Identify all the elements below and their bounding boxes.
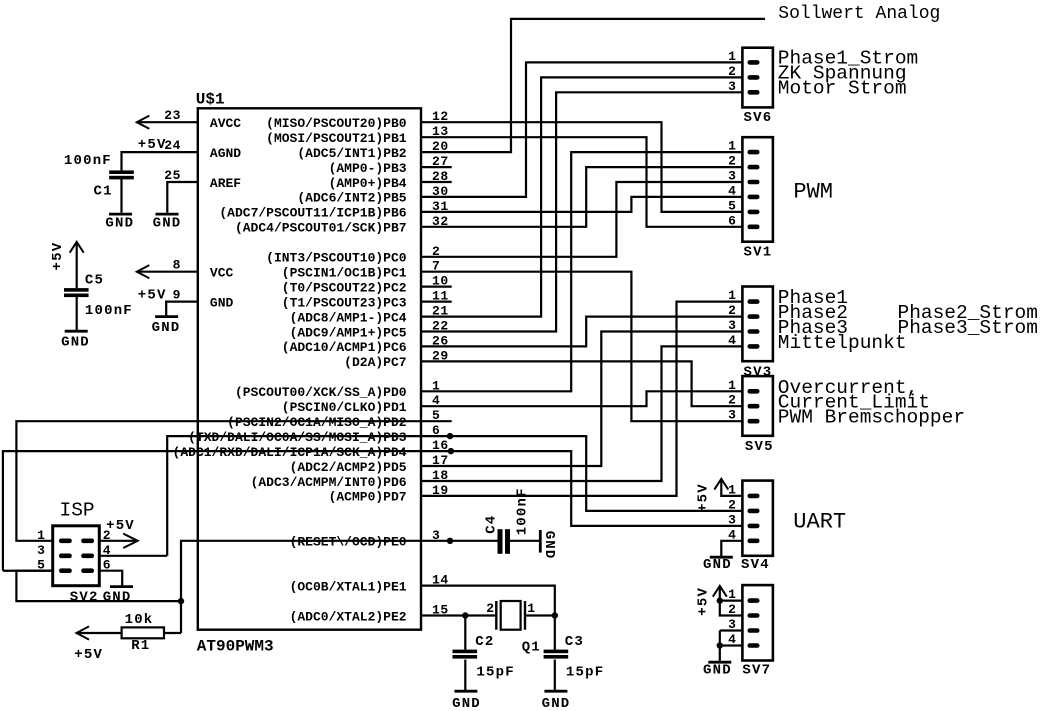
wire net XTAL1: PE1 pin14 to crystal pin1 node xyxy=(421,586,555,616)
svg-text:(AMP0-)PB3: (AMP0-)PB3 xyxy=(329,161,407,176)
junction dot PD4 stub xyxy=(448,448,454,454)
svg-text:VCC: VCC xyxy=(210,266,234,281)
wire net PHASE1_STROM: PB5 pin30 to SV6 pin1 xyxy=(421,62,742,197)
wire net PSCOUT20: PB0 pin12 to SV1 pin5 xyxy=(421,122,742,212)
wire net R1 right to RESET xyxy=(164,632,181,634)
svg-text:24: 24 xyxy=(164,138,181,153)
capacitor C5 label xyxy=(85,273,104,289)
node label Phase3 xyxy=(778,317,848,339)
wire net PHASE1: PD7 pin19 to SV3 pin1 xyxy=(421,302,742,496)
wire net +5V VCC: pin8 to +5V arrow xyxy=(137,271,198,273)
svg-text:+5V: +5V xyxy=(138,137,167,153)
svg-text:3: 3 xyxy=(728,512,736,527)
power +5V arrow at SV7 pins1-2 xyxy=(695,586,726,616)
svg-text:GND: GND xyxy=(103,589,132,605)
capacitor C1 plates xyxy=(109,170,134,179)
svg-text:15pF: 15pF xyxy=(566,664,604,680)
power +5V arrow at VCC pin8 xyxy=(137,265,167,303)
wire net PSCOUT21: PB1 pin13 to SV1 pin6 xyxy=(421,137,742,227)
crystal Q1 label xyxy=(522,640,541,656)
svg-text:Phase3_Strom: Phase3_Strom xyxy=(898,317,1038,339)
svg-text:(INT3/PSCOUT10)PC0: (INT3/PSCOUT10)PC0 xyxy=(266,251,407,266)
svg-text:2: 2 xyxy=(728,497,736,512)
svg-text:SV3: SV3 xyxy=(744,364,773,380)
svg-text:PWM Bremschopper: PWM Bremschopper xyxy=(778,407,965,429)
node label Current_Limit xyxy=(778,392,930,414)
svg-text:(OC0B/XTAL1)PE1: (OC0B/XTAL1)PE1 xyxy=(290,579,407,594)
wire net CURRENT_LIMIT: PC7 pin29 to SV5 pin2 xyxy=(421,361,742,406)
wire net PWM_BREMSCHOPPER: PC1 pin7 to SV5 pin3 xyxy=(421,272,742,422)
node label Mittelpunkt xyxy=(778,332,907,354)
svg-text:3: 3 xyxy=(728,617,736,632)
junction dot SV7 pin1 +5V xyxy=(717,597,723,603)
connector SV1 xyxy=(742,137,773,242)
svg-text:(ADC2/ACMP2)PD5: (ADC2/ACMP2)PD5 xyxy=(290,460,407,475)
wire net GND9: pin9 to GND xyxy=(166,302,198,316)
svg-text:+5V: +5V xyxy=(695,587,711,616)
SV7 pin numbers xyxy=(728,587,736,647)
svg-text:1: 1 xyxy=(37,528,45,543)
node label Sollwert Analog xyxy=(778,4,940,24)
capacitor C4 plates (horizontal orientation) xyxy=(498,529,511,554)
svg-text:C1: C1 xyxy=(94,183,113,199)
svg-text:(PSCIN0/CLKO)PD1: (PSCIN0/CLKO)PD1 xyxy=(282,400,407,415)
SV7 label xyxy=(742,663,771,679)
svg-text:2: 2 xyxy=(728,393,736,408)
node label Motor Strom xyxy=(778,78,907,100)
junction dot XTAL1 / C3 xyxy=(552,612,558,618)
junction dot ISP pin5 / R1 / RESET xyxy=(178,598,184,604)
wire net XTAL2 branch: C2 stem xyxy=(464,616,466,650)
SV2 right pin numbers 2 4 6 xyxy=(103,528,111,573)
svg-text:C3: C3 xyxy=(565,634,584,650)
SV3 pin numbers xyxy=(728,288,736,348)
svg-text:(ADC6/INT2)PB5: (ADC6/INT2)PB5 xyxy=(297,191,406,206)
svg-text:SV7: SV7 xyxy=(742,663,771,679)
wire net R1 left +5V xyxy=(77,632,122,634)
wire net C2 lower stem xyxy=(464,660,466,691)
ground GND under C1 xyxy=(105,214,134,231)
connector SV4 xyxy=(742,481,773,556)
wire net PSCOUT00: PD0 pin1 to SV1 pin1 xyxy=(421,152,742,391)
connector SV5 xyxy=(742,376,773,436)
svg-text:4: 4 xyxy=(728,333,736,348)
capacitor C2 value 15pF xyxy=(476,664,514,680)
SV1 label xyxy=(744,245,773,261)
node label PWM Bremschopper xyxy=(778,407,965,429)
node label Phase2 xyxy=(778,302,848,324)
SV4 pin numbers xyxy=(728,482,736,542)
SV5 label xyxy=(745,439,774,455)
power +5V arrow left of R1 xyxy=(74,626,103,663)
wire net SV7 GND pins3-4 xyxy=(720,631,743,662)
svg-text:GND: GND xyxy=(703,557,732,573)
SV4 label xyxy=(741,557,770,573)
svg-text:(MOSI/PSCOUT21)PB1: (MOSI/PSCOUT21)PB1 xyxy=(266,131,407,146)
svg-text:GND: GND xyxy=(153,216,182,232)
svg-text:(ADC10/ACMP1)PC6: (ADC10/ACMP1)PC6 xyxy=(282,340,407,355)
svg-text:1: 1 xyxy=(728,288,736,303)
resistor R1 label xyxy=(131,638,150,654)
node label Phase1_Strom xyxy=(778,48,918,70)
capacitor C1 value 100nF xyxy=(64,153,112,169)
svg-text:1: 1 xyxy=(527,601,535,616)
crystal Q1 pin number 1 xyxy=(527,601,535,616)
svg-text:GND: GND xyxy=(210,295,234,310)
node label Overcurrent, xyxy=(778,377,918,399)
capacitor C3 label xyxy=(565,634,584,650)
svg-text:C2: C2 xyxy=(475,634,494,650)
wire net SV4 +5V arrow to pin1 xyxy=(721,479,742,496)
svg-text:(ADC8/AMP1-)PC4: (ADC8/AMP1-)PC4 xyxy=(290,310,407,325)
ground GND at SV4 pin4 xyxy=(703,557,733,573)
svg-text:GND: GND xyxy=(703,663,732,679)
SV2 left pin numbers 1 3 5 xyxy=(37,528,45,573)
svg-text:(PSCIN2/OC1A/MISO_A)PD2: (PSCIN2/OC1A/MISO_A)PD2 xyxy=(227,415,407,430)
svg-text:(PSCOUT00/XCK/SS_A)PD0: (PSCOUT00/XCK/SS_A)PD0 xyxy=(235,385,407,400)
svg-text:2: 2 xyxy=(728,64,736,79)
svg-text:2: 2 xyxy=(728,303,736,318)
svg-text:GND: GND xyxy=(152,320,181,336)
junction dot PD3 stub xyxy=(447,433,453,439)
svg-text:Motor Strom: Motor Strom xyxy=(778,78,907,100)
svg-text:100nF: 100nF xyxy=(514,487,530,535)
svg-text:4: 4 xyxy=(728,527,736,542)
capacitor C2 label xyxy=(475,634,494,650)
svg-text:4: 4 xyxy=(728,632,736,647)
SV3 label xyxy=(744,364,773,380)
wire net MISO: ISP pin1 to PD2 pin5 and SV5 pin3 stub xyxy=(16,421,451,541)
U$1 left-side pin name labels AVCC AGND AREF VCC GND xyxy=(210,116,241,310)
svg-text:GND: GND xyxy=(105,216,134,232)
crystal Q1 xyxy=(496,601,525,630)
svg-text:+5V: +5V xyxy=(106,518,135,534)
svg-text:(MISO/PSCOUT20)PB0: (MISO/PSCOUT20)PB0 xyxy=(266,116,407,131)
ground GND under C5 xyxy=(61,331,90,350)
svg-text:(T1/PSCOUT23)PC3: (T1/PSCOUT23)PC3 xyxy=(282,295,407,310)
capacitor C3 value 15pF xyxy=(566,664,604,680)
svg-text:3: 3 xyxy=(37,543,45,558)
U$1 right-side pin numbers xyxy=(432,109,449,617)
svg-text:10k: 10k xyxy=(125,612,154,628)
connector SV6 xyxy=(742,48,773,108)
svg-text:(T0/PSCOUT22)PC2: (T0/PSCOUT22)PC2 xyxy=(282,280,407,295)
svg-text:(D2A)PC7: (D2A)PC7 xyxy=(344,355,406,370)
capacitor C3 plates xyxy=(544,650,569,659)
ISP title label xyxy=(60,499,95,521)
SV5 pin numbers xyxy=(728,378,736,423)
wire net C4 wires xyxy=(510,540,539,542)
wire net MITTELPUNKT: PD6 pin18 to SV3 pin4 xyxy=(421,346,742,481)
connector SV7 xyxy=(742,585,773,660)
svg-text:GND: GND xyxy=(452,696,481,711)
svg-text:C5: C5 xyxy=(85,273,104,289)
wire net ZK_SPANNUNG: PC4 pin21 to SV6 pin2 xyxy=(421,77,742,316)
svg-text:(ADC0/XTAL2)PE2: (ADC0/XTAL2)PE2 xyxy=(290,609,407,624)
svg-text:25: 25 xyxy=(164,168,181,183)
capacitor C1 label xyxy=(94,183,113,199)
svg-text:SV1: SV1 xyxy=(744,245,773,261)
wire net OVERCURRENT: PD1 pin4 to SV5 pin1 xyxy=(421,391,742,406)
svg-text:3: 3 xyxy=(728,79,736,94)
power +5V arrow at SV2 pin2 xyxy=(106,518,138,548)
connector SV3 xyxy=(742,287,773,362)
wire net ISP pin2 +5V xyxy=(99,540,137,542)
wire net AGND: pin24 to C1 xyxy=(122,152,198,170)
svg-text:UART: UART xyxy=(793,510,846,535)
svg-text:(ADC1/RXD/DALI/ICP1A/SCK_A)PD4: (ADC1/RXD/DALI/ICP1A/SCK_A)PD4 xyxy=(173,445,407,460)
ground GND right of C4 (rotated) xyxy=(540,530,557,560)
svg-text:SV6: SV6 xyxy=(744,110,773,126)
svg-text:(AMP0+)PB4: (AMP0+)PB4 xyxy=(329,176,407,191)
capacitor C5 plates xyxy=(64,288,89,297)
ground GND under pin9 xyxy=(152,317,181,337)
node label ZK Spannung xyxy=(778,63,907,85)
wire net PHASE2: PC6 pin26 to SV3 pin2 xyxy=(421,317,742,347)
SV6 label xyxy=(744,110,773,126)
wire net +5V AVCC: pin23 to +5V arrow xyxy=(137,121,198,123)
svg-text:3: 3 xyxy=(728,318,736,333)
ground GND under AREF xyxy=(153,214,182,231)
svg-text:+5V: +5V xyxy=(74,647,103,663)
svg-text:15pF: 15pF xyxy=(476,664,514,680)
svg-text:1: 1 xyxy=(728,482,736,497)
junction dot SV7 pin4 GND xyxy=(717,642,723,648)
wire net XTAL2: PE2 pin15 to crystal pin2 xyxy=(421,614,495,616)
wire net ISP pin6 GND xyxy=(99,571,122,586)
node label UART xyxy=(793,510,846,535)
junction dot PE2 / C2 xyxy=(462,612,468,618)
wire net PSCOUT10: PC0 pin2 to SV1 pin3 xyxy=(421,182,742,257)
wire net TXD: PD3 wire ISP pin4 through chip to SV4 pin2 xyxy=(99,436,742,556)
SV1 pin numbers xyxy=(728,139,736,229)
svg-text:(ADC4/PSCOUT01/SCK)PB7: (ADC4/PSCOUT01/SCK)PB7 xyxy=(235,221,407,236)
svg-text:SV5: SV5 xyxy=(745,439,774,455)
wire net PSCOUT11: PB6 pin31 to SV1 pin4 xyxy=(421,197,742,212)
resistor R1 body xyxy=(122,627,164,638)
svg-text:AT90PWM3: AT90PWM3 xyxy=(197,638,274,656)
junction dot RESET stub xyxy=(447,538,453,544)
wire net SOLLWERT: PB2 pin20 to label xyxy=(421,19,765,152)
svg-text:AVCC: AVCC xyxy=(210,116,241,131)
power +5V arrow above C5 xyxy=(50,242,84,271)
svg-text:(ADC9/AMP1+)PC5: (ADC9/AMP1+)PC5 xyxy=(290,325,407,340)
capacitor C2 plates xyxy=(453,650,478,659)
ground GND under C2 xyxy=(452,691,481,711)
svg-text:Sollwert Analog: Sollwert Analog xyxy=(778,4,940,24)
svg-text:3: 3 xyxy=(728,169,736,184)
power +5V arrow at SV4 pin1 xyxy=(695,479,728,512)
U$1 reference label xyxy=(196,90,225,108)
svg-text:8: 8 xyxy=(173,258,181,273)
svg-text:23: 23 xyxy=(164,108,181,123)
node label PWM xyxy=(793,180,833,205)
wire net PHASE3: PD5 pin17 to SV3 pin3 xyxy=(421,332,742,467)
svg-text:9: 9 xyxy=(173,288,181,303)
node label Phase3_Strom xyxy=(898,317,1038,339)
svg-text:R1: R1 xyxy=(131,638,150,654)
svg-text:SV2: SV2 xyxy=(70,589,99,605)
svg-text:GND: GND xyxy=(542,696,571,711)
svg-text:2: 2 xyxy=(728,602,736,617)
IC U$1 AT90PWM3 microcontroller body xyxy=(198,108,421,629)
svg-text:U$1: U$1 xyxy=(196,90,225,108)
svg-text:6: 6 xyxy=(728,213,736,228)
svg-text:AGND: AGND xyxy=(210,146,241,161)
svg-text:ISP: ISP xyxy=(60,499,95,521)
power +5V arrow at AVCC pin23 xyxy=(137,116,167,153)
U$1 left-side pin numbers 23 24 25 8 9 xyxy=(164,108,181,302)
AT90PWM3 value label xyxy=(197,638,274,656)
svg-text:GND: GND xyxy=(61,335,90,351)
capacitor C4 value 100nF (rotated) xyxy=(514,487,530,535)
wire net MOTOR_STROM: PC5 pin22 to SV6 pin3 xyxy=(421,92,742,331)
svg-text:(ADC3/ACMPM/INT0)PD6: (ADC3/ACMPM/INT0)PD6 xyxy=(251,475,407,490)
svg-text:5: 5 xyxy=(728,198,736,213)
unconnected pin stubs PB3 PB4 PC2 PC3 xyxy=(421,167,452,302)
wire net RESET: ISP pin5 via R1 node to PE0 pin3 and C4 xyxy=(16,541,497,633)
svg-text:C4: C4 xyxy=(484,515,500,534)
svg-text:(PSCIN1/OC1B)PC1: (PSCIN1/OC1B)PC1 xyxy=(282,266,407,281)
wire net SV4 pin4 GND xyxy=(721,541,742,557)
svg-text:1: 1 xyxy=(728,49,736,64)
crystal Q1 pin number 2 xyxy=(486,601,494,616)
svg-text:6: 6 xyxy=(103,558,111,573)
svg-text:3: 3 xyxy=(728,408,736,423)
wire net C3 lower stem xyxy=(554,660,556,691)
svg-text:(ACMP0)PD7: (ACMP0)PD7 xyxy=(329,490,407,505)
resistor R1 value 10k xyxy=(125,612,154,628)
SV2 label xyxy=(70,589,99,605)
svg-text:GND: GND xyxy=(541,531,557,560)
svg-text:(TXD/DALI/OC0A/SS/MOSI_A)PD3: (TXD/DALI/OC0A/SS/MOSI_A)PD3 xyxy=(188,430,407,445)
node label Phase1 xyxy=(778,287,848,309)
svg-text:Mittelpunkt: Mittelpunkt xyxy=(778,332,907,354)
svg-text:100nF: 100nF xyxy=(64,153,112,169)
svg-text:4: 4 xyxy=(103,543,111,558)
capacitor C4 label (rotated) xyxy=(484,515,500,534)
svg-text:5: 5 xyxy=(37,558,45,573)
svg-text:100nF: 100nF xyxy=(85,303,133,319)
wire net SV7 +5V arrow pins1-2 xyxy=(720,586,743,616)
svg-text:Q1: Q1 xyxy=(522,640,541,656)
ground GND under C3 xyxy=(542,691,571,711)
svg-text:SV4: SV4 xyxy=(741,557,770,573)
node label Phase2_Strom xyxy=(898,302,1038,324)
svg-text:+5V: +5V xyxy=(50,242,66,271)
wire net C5 stems xyxy=(76,242,78,330)
svg-text:+5V: +5V xyxy=(138,287,167,303)
svg-text:(ADC7/PSCOUT11/ICP1B)PB6: (ADC7/PSCOUT11/ICP1B)PB6 xyxy=(219,206,406,221)
svg-text:+5V: +5V xyxy=(695,483,711,512)
svg-text:(RESET\/OCD)PE0: (RESET\/OCD)PE0 xyxy=(290,535,407,550)
wire net C1 to GND stem xyxy=(120,179,122,213)
svg-text:4: 4 xyxy=(728,183,736,198)
SV6 pin numbers xyxy=(728,49,736,94)
svg-text:2: 2 xyxy=(486,601,494,616)
U$1 right-side pin name labels xyxy=(173,116,407,624)
wire net RXD: PD4 wire ISP pin3 through chip to SV4 pin3 xyxy=(3,451,743,571)
connector SV2 ISP header xyxy=(53,526,100,586)
wire net PSCOUT01: PB7 pin32 to SV1 pin2 xyxy=(421,167,742,227)
svg-text:1: 1 xyxy=(728,587,736,602)
capacitor C5 value 100nF xyxy=(85,303,133,319)
svg-text:1: 1 xyxy=(728,378,736,393)
svg-text:AREF: AREF xyxy=(210,176,241,191)
wire net AREF: pin25 to GND xyxy=(167,182,198,213)
svg-text:(ADC5/INT1)PB2: (ADC5/INT1)PB2 xyxy=(297,146,406,161)
svg-text:1: 1 xyxy=(728,139,736,154)
svg-text:PWM: PWM xyxy=(793,180,833,205)
svg-text:2: 2 xyxy=(728,154,736,169)
ground GND at SV2 pin6 xyxy=(103,587,133,606)
ground GND at SV7 pins3-4 xyxy=(703,662,732,678)
wire net XTAL1 branch: crystal pin1 to C3 xyxy=(526,616,555,650)
